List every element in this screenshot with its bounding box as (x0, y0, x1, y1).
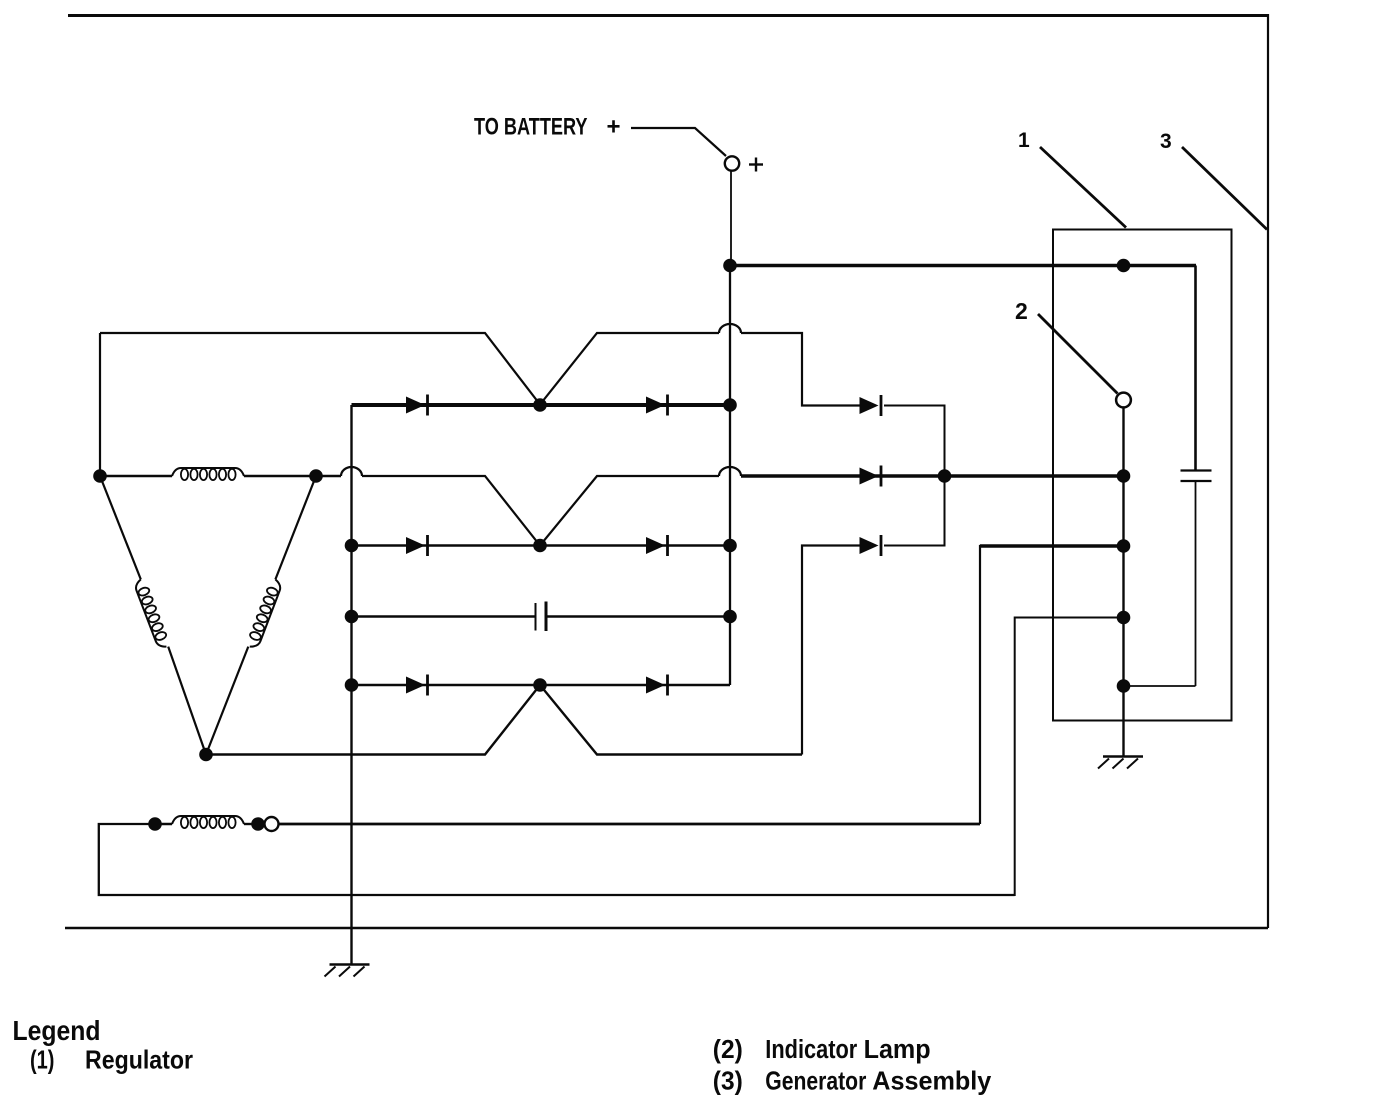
svg-text:2: 2 (1015, 298, 1028, 324)
svg-text:Generator: Generator (765, 1068, 866, 1097)
svg-text:Legend: Legend (13, 1015, 101, 1047)
svg-text:(3): (3) (713, 1067, 743, 1096)
svg-text:3: 3 (1160, 130, 1172, 153)
svg-text:Indicator: Indicator (765, 1035, 857, 1064)
svg-text:Regulator: Regulator (85, 1046, 193, 1075)
svg-text:+: + (607, 114, 621, 141)
svg-text:(2): (2) (713, 1035, 743, 1064)
svg-text:Lamp: Lamp (864, 1036, 931, 1064)
svg-text:Assembly: Assembly (872, 1067, 992, 1095)
svg-text:(1): (1) (30, 1045, 54, 1074)
svg-text:TO BATTERY: TO BATTERY (474, 113, 588, 140)
svg-text:1: 1 (1018, 129, 1030, 152)
